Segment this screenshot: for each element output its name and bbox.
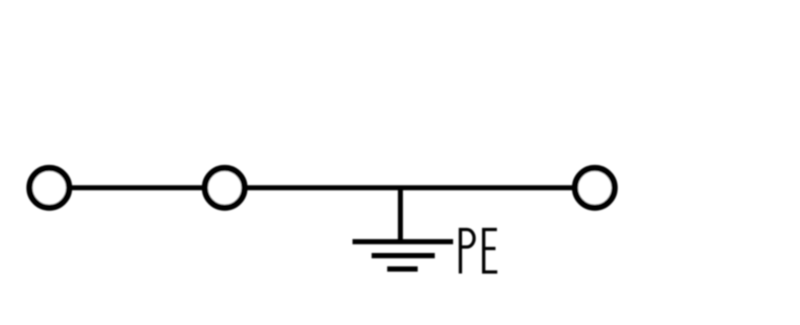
label PE: [460, 230, 497, 274]
terminal circle (right clamp point): [575, 168, 615, 208]
wire: vertical drop from bus to PE ground symbol: [398, 188, 403, 242]
ground (PE earth symbol, three bars): [353, 242, 454, 269]
terminal circle (middle clamp point): [205, 168, 245, 208]
terminal circle (left clamp point): [30, 168, 70, 208]
wire: horizontal bus from left terminal through middle terminal to right terminal: [49, 185, 595, 190]
